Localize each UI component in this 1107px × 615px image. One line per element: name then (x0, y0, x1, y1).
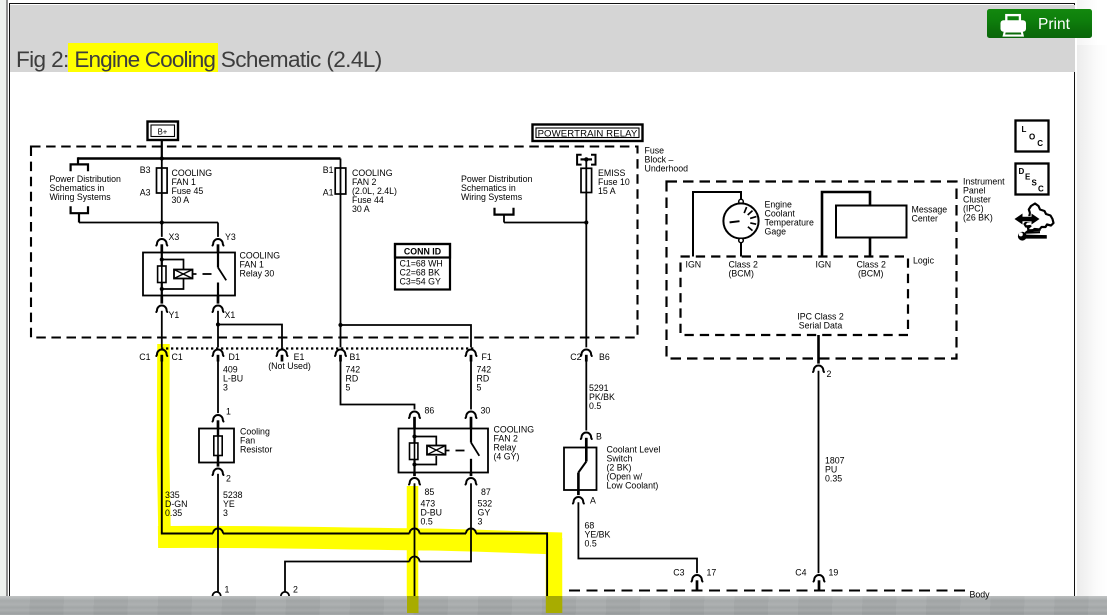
svg-text:Body: Body (970, 590, 991, 600)
